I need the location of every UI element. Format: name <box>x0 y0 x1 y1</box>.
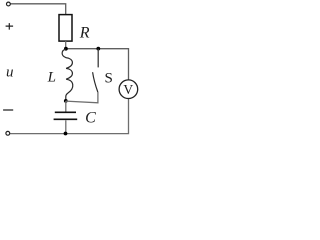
node junction switch-top <box>96 47 100 51</box>
voltmeter V body <box>119 80 138 99</box>
svg-text:R: R <box>79 25 90 42</box>
label S <box>105 71 113 87</box>
terminal top-left <box>6 2 10 6</box>
svg-text:C: C <box>85 109 96 126</box>
capacitor C top lead <box>65 101 67 112</box>
switch S blade <box>93 72 98 92</box>
svg-text:L: L <box>47 70 56 86</box>
svg-text:S: S <box>105 71 113 87</box>
wire bottom rail <box>10 99 129 134</box>
node junction bottom <box>64 132 68 136</box>
label minus <box>3 109 13 111</box>
terminal bottom-left <box>6 131 10 135</box>
label L <box>47 70 56 86</box>
label + <box>6 23 14 30</box>
wire top rail <box>10 4 65 15</box>
label V <box>123 82 133 97</box>
node junction left-top <box>64 47 68 51</box>
switch S top lead <box>97 49 99 68</box>
label u <box>6 64 14 80</box>
node junction left-bottom <box>64 99 68 103</box>
wire top connector <box>66 49 129 80</box>
resistor R <box>59 15 72 41</box>
inductor L coil <box>62 49 73 101</box>
svg-text:u: u <box>6 64 14 80</box>
svg-text:V: V <box>123 82 133 97</box>
capacitor C plates <box>54 112 78 119</box>
wire lower connector <box>66 92 98 103</box>
label C <box>85 109 96 126</box>
capacitor C bottom lead <box>65 120 67 133</box>
wire resistor bottom <box>65 41 67 49</box>
label R <box>79 25 90 42</box>
